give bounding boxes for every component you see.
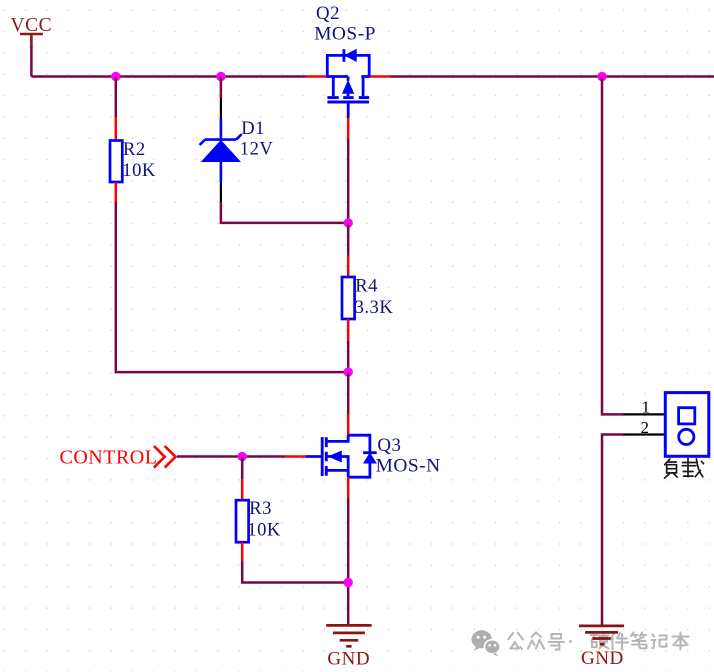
junction control node at R3	[238, 452, 247, 461]
wire top rail right of Q2	[389, 75, 714, 78]
resistor R2 body	[110, 141, 122, 183]
wire rail to D1	[220, 77, 223, 99]
mosfet Q3 pin D (red, top)	[347, 414, 350, 435]
wire rail down to load pin 1	[602, 77, 624, 415]
junction mid node at D1/R4	[344, 218, 353, 227]
wire mid node to R4	[347, 223, 350, 256]
resistor R4 body	[342, 277, 355, 319]
svg-text:1: 1	[642, 397, 651, 416]
mosfet Q3 pin S (red, bottom)	[347, 477, 350, 498]
resistor R4 pin 1 (red)	[347, 256, 350, 278]
mosfet Q2 symbol MOS-P	[326, 49, 370, 118]
mosfet Q2 pin D (red, right)	[370, 75, 389, 78]
wire CONTROL to Q3 gate	[177, 455, 285, 458]
wire Q3 source down to ground	[347, 498, 350, 625]
connector J1 body	[665, 393, 709, 457]
svg-text:R4: R4	[355, 275, 378, 296]
resistor R4 pin 2 (red)	[347, 319, 350, 341]
svg-text:VCC: VCC	[11, 15, 53, 36]
svg-text:2: 2	[641, 418, 650, 437]
mosfet Q2 pin G (red, bottom)	[347, 118, 350, 139]
svg-text:MOS-P: MOS-P	[314, 23, 376, 44]
watermark wechat logo	[472, 630, 501, 656]
svg-text:12V: 12V	[240, 138, 274, 159]
resistor R2 pin 1 (red)	[115, 118, 118, 141]
wire load pin 2 to ground stem	[602, 435, 624, 626]
wire top rail	[31, 75, 306, 78]
svg-text:R3: R3	[249, 498, 272, 519]
connector J1 pin 1 (black)	[624, 413, 666, 415]
svg-text:3.3K: 3.3K	[355, 297, 394, 318]
watermark text 公众号·硬件笔记本	[509, 633, 689, 650]
wire R3 bottom to ground net	[242, 562, 348, 583]
resistor R3 pin 2 (red)	[241, 542, 244, 561]
wire R4 to gate node	[347, 341, 350, 373]
junction on rail at D1 branch	[216, 72, 225, 81]
ground symbol right	[579, 626, 624, 644]
connector J1 pin-1 square	[679, 408, 695, 424]
connector J1 pin 2 (black)	[624, 433, 666, 435]
svg-text:MOS-N: MOS-N	[376, 455, 441, 476]
wire D1 bottom to mid node	[221, 202, 348, 223]
mosfet Q3 symbol MOS-N	[306, 435, 377, 477]
svg-text:R2: R2	[123, 139, 146, 160]
resistor R3 body	[236, 500, 249, 542]
junction on rail at load branch	[597, 72, 606, 81]
zener D1 symbol	[200, 119, 242, 182]
junction gate node R2/R4/Q3	[344, 367, 353, 376]
ground symbol left	[326, 625, 371, 646]
wire rail to R2	[115, 77, 118, 118]
load label 负载 (drawn glyphs)	[665, 459, 704, 479]
wire R2 bottom to gate net corner	[116, 202, 344, 372]
svg-text:10K: 10K	[122, 160, 156, 181]
mosfet Q3 pin G (red, left)	[285, 455, 306, 458]
junction ground node R3/Q3	[344, 578, 353, 587]
resistor R2 pin 2 (red)	[115, 182, 118, 202]
svg-text:10K: 10K	[247, 519, 281, 540]
wire control node down to R3	[241, 457, 244, 480]
connector J1 pin-2 circle	[679, 429, 694, 444]
mosfet Q2 pin S (red, left)	[307, 75, 327, 78]
svg-text:D1: D1	[241, 118, 265, 139]
power port VCC	[20, 34, 43, 48]
svg-text:Q2: Q2	[316, 3, 340, 24]
wire Q2 gate to mid node	[347, 139, 350, 223]
svg-text:GND: GND	[327, 648, 370, 669]
zener D1 pin 1 (black)	[220, 98, 222, 119]
port CONTROL chevrons	[154, 446, 176, 468]
svg-text:Q3: Q3	[377, 435, 401, 456]
resistor R3 pin 1 (red)	[241, 479, 244, 501]
junction on rail at R2 branch	[111, 72, 120, 81]
wire VCC stem to rail corner	[30, 46, 33, 77]
svg-text:GND: GND	[581, 648, 624, 669]
svg-text:CONTROL: CONTROL	[60, 446, 158, 468]
zener D1 pin 2 (black)	[220, 182, 222, 202]
wire gate node to Q3 drain	[347, 372, 350, 414]
